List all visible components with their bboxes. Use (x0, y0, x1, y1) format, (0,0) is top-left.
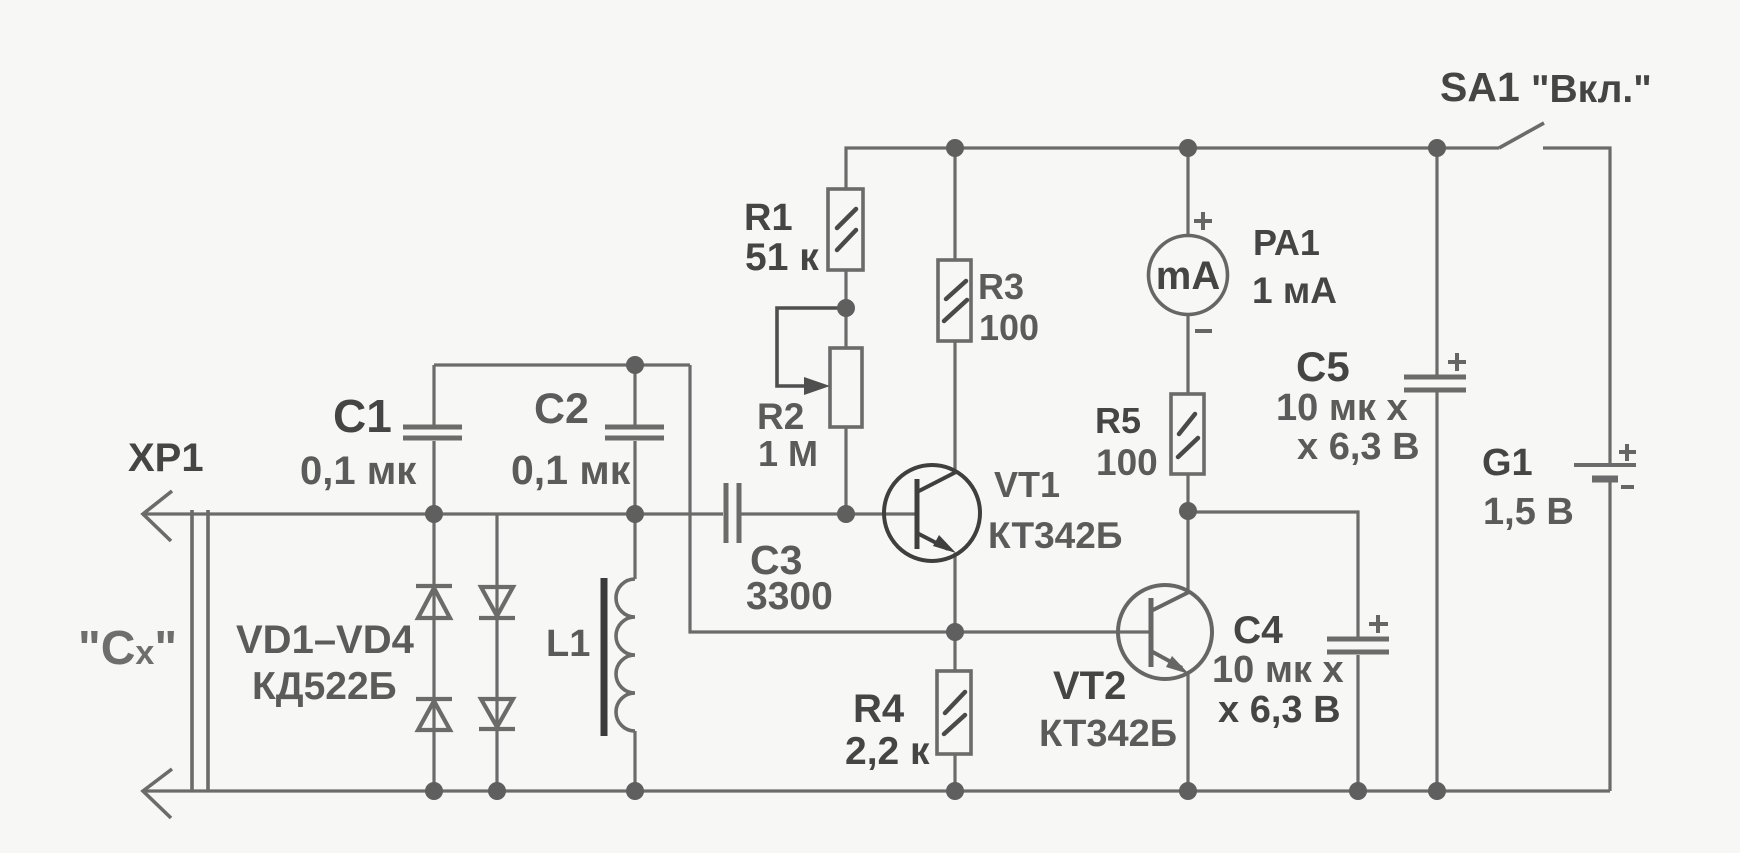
svg-text:"Вкл.": "Вкл." (1531, 68, 1652, 111)
svg-text:10 мк х: 10 мк х (1212, 649, 1344, 691)
svg-text:R5: R5 (1095, 400, 1141, 441)
svg-text:0,1 мк: 0,1 мк (511, 447, 631, 493)
svg-text:VT1: VT1 (994, 464, 1060, 505)
svg-text:10 мк х: 10 мк х (1276, 387, 1408, 429)
svg-text:SA1: SA1 (1440, 64, 1520, 110)
svg-text:С5: С5 (1296, 343, 1350, 390)
svg-text:х 6,3 В: х 6,3 В (1297, 426, 1420, 468)
svg-text:3300: 3300 (746, 575, 833, 618)
svg-text:С1: С1 (333, 390, 392, 442)
svg-text:РА1: РА1 (1253, 222, 1320, 263)
svg-text:VD1–VD4: VD1–VD4 (236, 618, 415, 662)
svg-text:1 М: 1 М (758, 433, 818, 474)
svg-text:R2: R2 (757, 396, 804, 437)
svg-text:R3: R3 (978, 266, 1024, 307)
svg-text:100: 100 (1096, 442, 1158, 483)
svg-text:VT2: VT2 (1053, 664, 1126, 708)
svg-text:2,2 к: 2,2 к (845, 730, 930, 773)
svg-text:х 6,3 В: х 6,3 В (1218, 689, 1341, 731)
svg-text:1,5 В: 1,5 В (1483, 491, 1574, 533)
svg-text:L1: L1 (546, 623, 590, 665)
svg-text:100: 100 (979, 307, 1039, 348)
svg-text:С4: С4 (1233, 609, 1283, 652)
svg-text:R1: R1 (744, 197, 793, 239)
svg-text:"Сх": "Сх" (78, 622, 177, 675)
svg-text:КТ342Б: КТ342Б (1039, 713, 1177, 755)
svg-text:mA: mA (1156, 254, 1220, 298)
svg-text:0,1 мк: 0,1 мк (300, 449, 417, 493)
svg-text:С2: С2 (534, 385, 589, 433)
svg-text:ХР1: ХР1 (128, 436, 204, 480)
svg-text:1 мА: 1 мА (1252, 270, 1337, 311)
svg-text:51 к: 51 к (745, 236, 819, 279)
svg-text:КТ342Б: КТ342Б (988, 515, 1122, 556)
svg-text:R4: R4 (853, 687, 905, 731)
svg-text:КД522Б: КД522Б (252, 665, 397, 708)
svg-text:G1: G1 (1482, 442, 1533, 484)
